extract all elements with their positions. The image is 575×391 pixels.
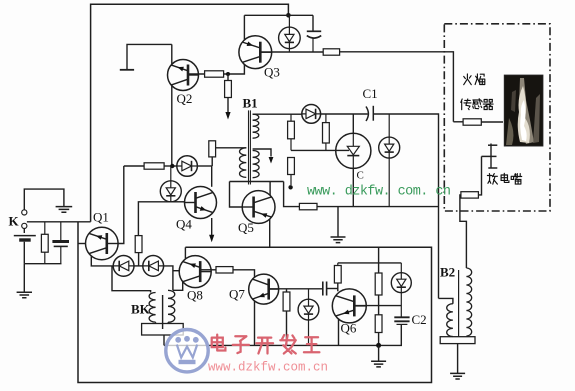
- resistor R (gate upper): [290, 114, 292, 121]
- resistor R (input filter): [44, 222, 46, 235]
- zener diode D (bottom mid): [308, 289, 310, 299]
- wire: to flame sensor box: [340, 52, 454, 122]
- wire: drop to cap top: [312, 15, 314, 31]
- resistor R (node line): [144, 163, 164, 169]
- resistor R (discharge): [461, 192, 479, 198]
- ground: top of K branch: [56, 207, 73, 213]
- wire: battery to lower node: [23, 242, 25, 264]
- wire: resistor down to B2 secondary: [460, 195, 467, 268]
- wire: Q3 base line: [260, 51, 323, 53]
- wire: Q6 bias top line: [338, 262, 402, 264]
- transformer B2 yoke: [440, 337, 475, 344]
- wire: gate line to SCR: [291, 149, 349, 151]
- wire: Q5 collector riser: [269, 182, 271, 196]
- wire: bottom rail of oscillator section: [164, 344, 379, 346]
- wire: resistor to junction and Q3 emitter: [224, 64, 245, 74]
- diode D3 (points right): [177, 156, 198, 177]
- diode D1 (points left): [113, 256, 134, 277]
- transformer B1 primary winding (right, lower): [253, 151, 260, 178]
- svg-text:C2: C2: [412, 312, 427, 327]
- transistor Q7: [249, 274, 279, 304]
- transformer B1 core: [249, 110, 251, 184]
- wire: outer loop of driver box: [78, 222, 432, 383]
- wire: Q7 base line to coupling cap: [269, 288, 323, 290]
- transformer B2 core: [458, 270, 460, 337]
- wire: node line with resistor to Q1 base riser: [124, 165, 144, 167]
- wire: spark gap to resistor: [478, 156, 481, 195]
- wire: Q4 emitter with arrow: [211, 218, 213, 235]
- wire: into Q2 collector: [171, 44, 173, 64]
- wire: SCR anode to node line: [352, 114, 354, 133]
- wire: branch down to BK primary: [112, 266, 151, 293]
- wire: Q1 base riser: [118, 166, 124, 244]
- battery GB: [14, 235, 36, 237]
- wire: sensor resistor to flame: [481, 121, 503, 123]
- transistor Q8: [179, 256, 211, 288]
- label 传感器 (sensor): [461, 99, 471, 110]
- resistor R (flame sensor): [453, 121, 463, 123]
- svg-text:C: C: [357, 170, 364, 182]
- watermark: red site name: [212, 335, 226, 351]
- transistor Q3: [239, 36, 272, 69]
- wire: riser down into Q4 collector: [211, 166, 213, 187]
- wire: resistor bottom to node line: [211, 157, 213, 166]
- resistor R (vertical, below junction): [227, 74, 229, 81]
- transformer BK core: [162, 295, 164, 329]
- resistor R (on SCR cathode rail): [299, 203, 317, 209]
- wire: to base line: [378, 295, 380, 315]
- flame photo: [504, 75, 543, 146]
- wire: Q5 base from B1 secondary: [230, 182, 243, 208]
- wire: yoke to ground: [457, 344, 459, 373]
- svg-text:www. dzkfw. com. cn: www. dzkfw. com. cn: [307, 185, 450, 200]
- flame sensor dashed box: [444, 24, 550, 211]
- capacitor (top, curved plate): [307, 30, 321, 32]
- wire: Q8 emitter to BK secondary top: [173, 281, 183, 290]
- ground: below SCR rail: [337, 207, 339, 237]
- node A: junction dot top-right of rail: [286, 13, 291, 18]
- wire: to bottom rail: [378, 333, 380, 346]
- resistor R (Q8-Q7 coupling): [216, 267, 233, 273]
- wire: Q4 base line right: [171, 201, 185, 203]
- wire: Q1 emitter to left rail: [78, 243, 86, 245]
- resistor R (divider lower): [375, 315, 382, 333]
- svg-text:B2: B2: [440, 265, 455, 280]
- transformer B1 primary winding (right, upper): [253, 114, 259, 138]
- label 火焰 (flame): [464, 74, 472, 85]
- resistor R (B1 feedback): [209, 141, 216, 157]
- thyristor CS (SCR): [336, 133, 371, 168]
- diode D5 (by C1): [388, 114, 390, 137]
- wire: zener bottom to Q4 base line: [138, 202, 170, 236]
- svg-text:B1: B1: [243, 96, 258, 111]
- node: ground junction dot on bottom rail: [376, 343, 381, 348]
- svg-text:Q1: Q1: [93, 210, 109, 225]
- wire: B1 right winding top to node line: [253, 113, 291, 115]
- wire: bottom node line: [24, 263, 61, 265]
- wire: C1 to right corner: [373, 114, 438, 298]
- switch K contacts: [22, 210, 27, 215]
- wire: B1 left winding top to resistor: [216, 147, 247, 149]
- wire: drop to Q3 collector: [243, 15, 245, 40]
- transistor Q5: [242, 191, 275, 224]
- node line: B1 to C1 (anode line): [291, 113, 302, 115]
- wire: B1 bottom line: [230, 181, 284, 183]
- svg-text:C1: C1: [363, 86, 378, 101]
- diode D2 (points left): [143, 256, 164, 277]
- resistor R (Q2 base): [205, 71, 224, 77]
- wire: Q5 emitter to box rail: [269, 219, 271, 248]
- transistor Q2: [168, 60, 199, 91]
- wire: to gate line: [290, 139, 292, 151]
- resistor R (from diode node): [325, 114, 327, 123]
- wire: Q8 collector riser to box rail: [184, 247, 186, 259]
- zener diode D (bottom right): [400, 263, 402, 273]
- transformer B2 secondary winding (right): [466, 268, 471, 336]
- wire: B1 bottom right corner down to SCR rail: [284, 182, 300, 207]
- transistor Q6: [332, 289, 366, 323]
- wire: Q6 emitter to bottom rail: [338, 319, 340, 346]
- transformer B1 secondary winding (left): [239, 148, 246, 178]
- ground: T-stub left of Q2: [127, 44, 172, 69]
- resistor R (gate lower) with terminal dot: [288, 158, 295, 175]
- wire: resistor to Q7 collector: [233, 270, 255, 277]
- wire: diode to C1: [321, 113, 368, 115]
- wire: Q8 base to resistor: [200, 269, 216, 271]
- resistor R (divider upper): [375, 273, 382, 295]
- wire: riser from box rail to bias line: [378, 247, 380, 273]
- zener diode D (below node B): [170, 166, 172, 181]
- wire: resistor to Q6 collector: [337, 283, 339, 291]
- wire: between steering diodes: [134, 265, 143, 267]
- ground: below bottom rail: [378, 345, 380, 361]
- svg-text:Q7: Q7: [229, 287, 245, 302]
- wire: diode to Q4 collector riser: [197, 165, 212, 167]
- label 放电嘴 (discharge nozzle): [487, 174, 497, 185]
- wire: resistor to junction dot: [164, 165, 177, 167]
- wire with arrow: resistor to lower rail: [227, 98, 229, 113]
- wire: Q2 base to resistor: [188, 73, 205, 75]
- wire: C2 to bottom rail dot: [379, 324, 402, 345]
- transformer B1 tap with arrow: [253, 149, 271, 157]
- wire: main supply rail from K line up left side and across top: [91, 4, 289, 222]
- svg-text:K: K: [9, 214, 20, 229]
- svg-text:www.dzkfw.com.cn: www.dzkfw.com.cn: [208, 361, 328, 375]
- diode D4 (points right): [302, 105, 321, 124]
- wire: Q1 lower electrode to diode line: [91, 256, 113, 266]
- resistor R (Q7 base) to bottom rail: [286, 289, 288, 292]
- capacitor C2: [394, 317, 409, 321]
- wire: Q2 collector drop to node line: [171, 86, 173, 166]
- wire: K node line to rails: [27, 221, 91, 223]
- wire: resistor to steering diodes junction: [138, 253, 140, 266]
- wire: tap to Q8 base: [173, 270, 180, 272]
- svg-text:Q3: Q3: [264, 65, 280, 80]
- svg-text:Q4: Q4: [176, 217, 192, 232]
- svg-text:Q5: Q5: [238, 220, 254, 235]
- wire: D5 cathode to rail: [388, 158, 390, 207]
- wire: SCR cathode rail: [317, 206, 439, 208]
- transistor Q1: [86, 227, 119, 260]
- ground: B2: [450, 373, 465, 379]
- capacitor (coupling, unlabeled): [323, 282, 327, 296]
- wire: cap to Q6 collector riser: [327, 288, 338, 290]
- svg-text:Q8: Q8: [187, 288, 203, 303]
- transistor Q4: [185, 187, 217, 219]
- wire: BK yoke to bottom rail: [163, 335, 165, 345]
- capacitor C (input filter): [60, 222, 62, 241]
- watermark: blue W logo: [166, 330, 208, 372]
- spark gap (discharge nozzle): [490, 144, 492, 169]
- transformer BK secondary winding (right): [168, 290, 175, 322]
- wire: top node to Q3 collector and snubber cap: [244, 14, 313, 16]
- resistor R (Q3 base to flame sensor): [323, 49, 339, 55]
- svg-text:Q6: Q6: [341, 321, 357, 336]
- svg-text:BK: BK: [131, 302, 151, 317]
- transformer BK primary winding (left): [149, 293, 156, 323]
- capacitor C1: [366, 107, 368, 122]
- wire: SCR cathode to rail: [352, 168, 354, 206]
- wire: resistor to gate line: [325, 143, 327, 150]
- node B: junction dot under Q2: [170, 164, 174, 168]
- transformer BK yoke: [142, 324, 184, 336]
- wire: Q6 base line to divider: [354, 305, 401, 307]
- wire: K bottom to battery: [23, 229, 25, 234]
- wire: K top to upper ground: [24, 189, 64, 210]
- node: junction at base resistor: [226, 72, 230, 76]
- wire: Q7 emitter to bottom rail: [254, 301, 256, 346]
- wire: B1 drive line into B2 primary: [439, 298, 453, 303]
- transformer B2 primary winding (left): [447, 304, 453, 337]
- svg-text:Q2: Q2: [177, 91, 193, 106]
- wire: D2 to Q8 base riser: [164, 266, 173, 290]
- zener diode D (top, at node): [288, 15, 290, 27]
- resistor R (Q1 base divider): [135, 236, 142, 253]
- ground: battery negative: [23, 264, 25, 292]
- wire: zener to C2: [400, 293, 402, 318]
- resistor R (Q6 collector load): [337, 263, 339, 266]
